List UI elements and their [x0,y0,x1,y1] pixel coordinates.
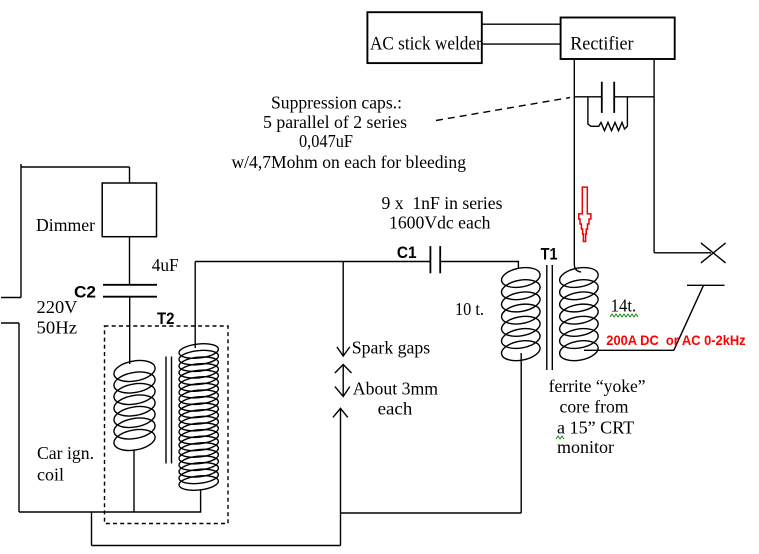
switch blade [674,286,704,351]
svg-text:Suppression caps.:: Suppression caps.: [271,93,402,113]
svg-text:1600Vdc each: 1600Vdc each [389,213,491,233]
wire suppression right segment [615,96,654,98]
inductor T1 primary coil [500,265,542,364]
wire welder-rectifier bottom [482,43,561,45]
arrow red current indicator [579,187,591,241]
core T1 line left [546,265,548,370]
wire top-left input upper prong [1,297,21,299]
svg-text:each: each [378,399,413,419]
wire dimmer to C2 [129,237,131,285]
wire top horizontal to dimmer [21,166,130,168]
svg-text:monitor: monitor [557,437,614,457]
inductor T1 secondary coil [558,265,600,364]
svg-text:4uF: 4uF [152,255,179,275]
svg-text:Dimmer: Dimmer [36,215,95,235]
core T2 line left [165,357,167,464]
capacitor suppression plate left [601,82,603,113]
wire left vertical up to dimmer loop [20,164,22,298]
wire T2 primary bottom lead [133,450,135,512]
svg-text:0,047uF: 0,047uF [299,131,353,151]
wire bottom-left horizontal [19,511,201,513]
squiggle under a [556,436,564,439]
svg-text:T2: T2 [157,309,175,328]
dashed annotation line [436,98,570,121]
wire into dimmer box top [129,167,131,183]
wire welder-rectifier top [482,23,561,25]
box AC stick welder [367,12,481,63]
svg-text:5 parallel of 2 series: 5 parallel of 2 series [263,112,407,132]
wire main top horizontal left of C1 [195,261,430,263]
core T1 line right [551,265,553,370]
wire T1 primary bottom lead [520,353,522,513]
svg-text:AC stick welder: AC stick welder [370,34,482,55]
wire T2 tap down [91,512,93,546]
svg-text:ferrite “yoke”: ferrite “yoke” [549,376,646,396]
capacitor C1 plate right [439,246,441,273]
wire rectifier left output down to T1 secondary [574,59,581,272]
svg-text:C1: C1 [397,243,417,262]
svg-text:200A DC or AC 0-2kHz: 200A DC or AC 0-2kHz [606,332,745,348]
wire rectifier right to X [654,252,711,254]
wire suppression left segment [574,96,601,98]
svg-text:w/4,7Mohm on each for bleeding: w/4,7Mohm on each for bleeding [232,152,467,172]
box Rectifier [561,18,675,60]
svg-text:T1: T1 [541,245,558,264]
switch fixed contact bar [687,284,725,286]
wire C2 to T2 primary [129,298,131,365]
wire bottom-most horizontal [92,545,341,547]
svg-text:a 15” CRT: a 15” CRT [557,418,634,438]
svg-text:Rectifier: Rectifier [570,33,634,54]
capacitor C2 plate bottom [103,296,157,298]
wire T1 secondary bottom output [584,349,674,351]
svg-text:220V: 220V [37,297,78,317]
svg-text:Car ign.: Car ign. [37,443,94,463]
wire T2 secondary bottom lead [200,490,202,512]
wire T2 secondary top lead [194,262,196,349]
resistor bleeder 4.7Mohm loop [588,97,628,131]
svg-text:About 3mm: About 3mm [353,379,438,399]
wire rectifier right output [653,59,655,253]
svg-text:coil: coil [37,465,64,485]
wire bottom horizontal to T1 primary [340,512,521,514]
capacitor C1 plate left [429,246,431,273]
wire left vertical down [18,323,20,512]
box Dimmer [102,183,156,237]
inductor T2 secondary coil [178,342,219,492]
svg-text:core from: core from [560,396,629,416]
spark gap upper lead with down arrowhead [337,262,350,357]
wire main top horizontal right of C1 [440,262,518,269]
core T2 line right [171,357,173,464]
svg-text:50Hz: 50Hz [37,318,78,338]
squiggle under 14t. [610,314,638,317]
node X output terminal [701,243,726,263]
spark gap double arrow [335,365,352,397]
inductor T2 primary coil [112,358,156,454]
capacitor C2 plate top [103,284,157,286]
spark gap lower lead with up arrowhead [333,408,348,545]
svg-text:9 x 1nF in series: 9 x 1nF in series [382,193,503,213]
wire bottom-left input lower prong [1,322,19,324]
svg-text:Spark gaps: Spark gaps [352,338,430,358]
transformer T2 boundary dashed box [105,326,229,524]
svg-text:10 t.: 10 t. [455,299,484,319]
svg-text:14t.: 14t. [611,296,637,316]
capacitor suppression plate right [613,82,615,113]
